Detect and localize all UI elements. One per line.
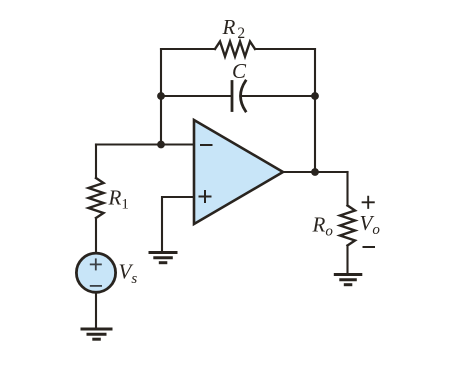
wire top feedback right segment [255,48,315,50]
wire right feedback vertical [314,49,316,172]
node junction dot feedback left [157,92,165,100]
label minus polarity Vo [364,246,375,248]
svg-text:C: C [232,59,247,83]
wire noninverting input to ground [162,197,194,252]
resistor R2 [215,42,255,57]
wire Ro to ground [346,246,348,275]
wire output branch vertical [346,172,348,206]
svg-text:R2: R2 [222,15,246,42]
node junction dot output [311,168,319,176]
wire left feedback vertical [160,49,162,145]
node junction dot inverting input [157,141,165,149]
ground noninverting input [149,253,178,263]
wire R1 to Vs [95,218,97,254]
label plus polarity Vo [363,197,374,208]
svg-text:Vs: Vs [119,260,138,287]
ground Vs [81,329,113,339]
resistor R1 [89,178,104,218]
resistor Ro [340,206,355,246]
wire Vs to ground [95,292,97,329]
wire top feedback left segment [161,48,215,50]
capacitor C [232,81,246,111]
wire inverting input [96,143,194,145]
svg-text:Ro: Ro [312,213,334,240]
ground Ro [334,275,363,285]
node junction dot feedback right [311,92,319,100]
svg-text:Vo: Vo [360,211,381,238]
source Vs [76,253,115,292]
wire left branch upper [95,145,97,179]
wire capacitor right segment [241,95,315,97]
svg-text:R1: R1 [108,186,129,213]
op-amp U1 [194,120,283,224]
wire capacitor left segment [161,95,231,97]
wire output [283,171,348,173]
